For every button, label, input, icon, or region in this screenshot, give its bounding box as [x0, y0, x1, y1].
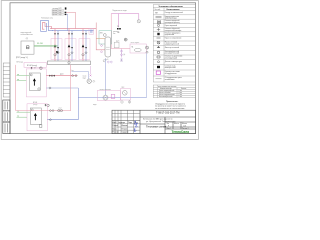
- shutoff valves: [54, 45, 87, 49]
- svg-text:датчик Т обр.: датчик Т обр.: [52, 14, 62, 16]
- pump skid box: [130, 44, 146, 53]
- unit B symbols: [45, 104, 50, 107]
- makeup header magenta: [111, 13, 139, 15]
- svg-text:насос: насос: [83, 75, 87, 77]
- unit B green inlet 1: [17, 111, 31, 113]
- svg-text:Кран со спускником: Кран со спускником: [165, 38, 182, 40]
- svg-text:(2): (2): [26, 38, 29, 40]
- valve on A return: [49, 87, 51, 89]
- vessel bottom drop: [104, 58, 106, 95]
- svg-text:оборудования: оборудования: [165, 73, 177, 75]
- diamonds on B supply: [49, 110, 54, 112]
- unit B enclosure: [27, 104, 47, 131]
- return riser up: [77, 88, 79, 120]
- svg-text:1:25: 1:25: [183, 125, 186, 127]
- unit A green inlet 1: [17, 75, 30, 77]
- svg-text:Условные обозначения: Условные обозначения: [159, 5, 184, 8]
- svg-text:Масшт: Масшт: [182, 123, 187, 125]
- svg-text:Т-08/17-033-2017-ТМ: Т-08/17-033-2017-ТМ: [156, 112, 179, 115]
- svg-text:Кран шаровый: Кран шаровый: [165, 24, 177, 27]
- heat exchanger HE1: [21, 41, 34, 54]
- vessel inner mark: [106, 47, 110, 49]
- skid right diamond: [146, 51, 148, 53]
- unit B green inlet 2: [17, 116, 28, 118]
- svg-text:подп.: подп.: [83, 77, 87, 79]
- unit B bottom box: [40, 125, 42, 128]
- svg-text:Бак мембранный: Бак мембранный: [159, 95, 172, 98]
- pump unit P2: [121, 89, 131, 101]
- return riser left: [15, 65, 17, 111]
- branch to drain: [121, 49, 123, 58]
- svg-text:мембранный: мембранный: [165, 66, 176, 69]
- boiler branch groups: [51, 29, 90, 61]
- svg-text:2 шт: 2 шт: [59, 108, 62, 110]
- svg-text:Л: Л: [115, 122, 116, 124]
- unit A burner arrow: [33, 79, 35, 85]
- branch pipes: [55, 29, 86, 61]
- supply riser from manifold: [70, 65, 72, 111]
- title block: [112, 110, 196, 133]
- return bus T2: [52, 30, 94, 32]
- legend table: [153, 5, 195, 82]
- diamonds on A supply: [71, 75, 73, 77]
- primechanie note: [155, 101, 186, 110]
- drain valves: [120, 50, 122, 52]
- unit A green inlet 2: [17, 80, 27, 82]
- legend symbols: [155, 12, 162, 78]
- unit A symbols above: [31, 67, 42, 70]
- svg-text:датчик Т нар.: датчик Т нар.: [52, 10, 62, 12]
- svg-text:ул. Центральной. Тепломеханика: ул. Центральной. Тепломеханика: [146, 120, 176, 123]
- expansion vessel: [105, 37, 111, 57]
- outlet valves purple: [107, 61, 109, 63]
- vessel outlet circle: [103, 60, 105, 62]
- svg-text:пружинный: пружинный: [165, 33, 174, 36]
- svg-text:3: 3: [82, 58, 83, 60]
- svg-text:газ: газ: [17, 74, 19, 76]
- mixing line blue: [72, 72, 89, 80]
- svg-text:Ду25: Ду25: [116, 41, 119, 43]
- logo green: [172, 130, 190, 134]
- group 3 enclosure: [79, 39, 90, 60]
- svg-text:Дс: Дс: [124, 54, 126, 56]
- collector manifold: [48, 61, 91, 65]
- svg-text:Масса: Масса: [174, 123, 179, 125]
- main supply drop: [96, 23, 105, 50]
- page edge: [1, 1, 198, 140]
- makeup drop 2: [118, 14, 120, 28]
- group 2 enclosure: [65, 39, 76, 60]
- svg-text:Сидоров: Сидоров: [122, 132, 129, 134]
- svg-text:№докум: №докум: [118, 121, 125, 124]
- makeup drop 1: [111, 14, 130, 49]
- svg-text:[ГВТ (вход 1-]: [ГВТ (вход 1-]: [16, 57, 28, 59]
- device circle: [137, 20, 140, 23]
- svg-text:1 шт: 1 шт: [179, 96, 183, 98]
- svg-text:Тепловая сеть: Тепловая сеть: [41, 17, 53, 19]
- svg-text:расширительный: расширительный: [165, 52, 179, 55]
- unit A return out: [46, 87, 78, 89]
- makeup drop 3: [138, 14, 140, 20]
- makeup pump: [87, 79, 91, 83]
- svg-text:Н.контр: Н.контр: [113, 132, 119, 134]
- svg-text:1: 1: [54, 58, 55, 60]
- bottom return bus: [78, 97, 146, 99]
- unit A bottom circle: [38, 88, 40, 90]
- unit B top circle: [31, 109, 33, 111]
- svg-text:Ду50: Ду50: [60, 74, 64, 76]
- right small table: [153, 85, 195, 98]
- inlet valves: [100, 44, 102, 46]
- svg-text:Иванов: Иванов: [122, 125, 128, 127]
- svg-text:подп.: подп.: [93, 104, 97, 106]
- svg-text:95-110: 95-110: [37, 43, 43, 45]
- sensor symbol: [65, 7, 67, 9]
- svg-text:Фильтр сетчатый: Фильтр сетчатый: [165, 46, 179, 49]
- svg-text:Подпиточная вода: Подпиточная вода: [112, 10, 127, 12]
- sensor squares: [65, 12, 67, 13]
- unit A boiler: [29, 73, 40, 90]
- sensor tap wire blue: [66, 14, 67, 30]
- supply bus T1: [50, 28, 96, 30]
- svg-text:Лит: Лит: [167, 123, 170, 125]
- svg-text:насосы сетевые: насосы сетевые: [100, 89, 111, 91]
- svg-text:2 шт: 2 шт: [71, 70, 74, 72]
- svg-text:(вход): (вход): [33, 104, 38, 106]
- gauge circle right: [124, 38, 127, 41]
- svg-text:автоматики: автоматики: [165, 79, 175, 81]
- device box right of vessel: [114, 42, 119, 48]
- magenta cross: [90, 75, 92, 77]
- unit B return out: [47, 119, 78, 121]
- valve pair on A supply: [49, 75, 51, 77]
- unit B supply in: [16, 110, 71, 112]
- svg-text:Пров.: Пров.: [113, 128, 118, 130]
- left margin ladder: [3, 63, 10, 97]
- svg-text:поворотный межфл.: поворотный межфл.: [165, 29, 182, 32]
- unit B boiler: [30, 108, 41, 124]
- skid right circle: [146, 46, 149, 49]
- green supply line 2: [34, 46, 58, 48]
- expansion loop supply pipe T1: [42, 23, 51, 30]
- pump unit P1: [97, 91, 120, 101]
- svg-text:Разраб: Разраб: [113, 125, 119, 127]
- small gauge: [93, 80, 95, 82]
- vessel top circle: [103, 34, 106, 37]
- svg-text:ПЕ: ПЕ: [117, 26, 119, 28]
- svg-text:регулирующий: регулирующий: [165, 56, 177, 59]
- makeup water line orange: [96, 38, 105, 40]
- svg-text:Р: Р: [168, 125, 169, 127]
- drawing frame: [10, 3, 196, 134]
- manifold valve: [68, 61, 71, 64]
- pump oval: [134, 48, 141, 51]
- VL box: [24, 63, 47, 68]
- green supply line: [34, 44, 58, 46]
- svg-text:Тепловая схема: Тепловая схема: [146, 125, 167, 129]
- pump in group1: [56, 51, 58, 53]
- svg-text:проходной фланц.: проходной фланц.: [165, 21, 181, 24]
- flow arrows: [54, 33, 87, 35]
- svg-text:2: 2: [68, 58, 69, 60]
- unit A enclosure: [26, 69, 46, 97]
- sensor tap wire red: [66, 12, 75, 28]
- left margin stamp boxes: [3, 100, 10, 134]
- svg-text:газ: газ: [17, 79, 19, 81]
- svg-text:циркуляционный: циркуляционный: [165, 42, 179, 45]
- svg-text:Контур отопительный: Контур отопительный: [165, 11, 183, 14]
- expansion loop return pipe T2: [41, 20, 53, 31]
- svg-text:ВЛ-М (вход): ВЛ-М (вход): [27, 65, 37, 67]
- svg-text:Петров: Петров: [122, 128, 128, 130]
- signature squiggles: [134, 121, 138, 131]
- svg-text:датчик Т под.: датчик Т под.: [52, 12, 62, 14]
- svg-text:на аналогичное по согласованию: на аналогичное по согласованию: [155, 108, 185, 110]
- softener skid teal box: [99, 31, 112, 44]
- HE1 inner mark: [26, 46, 29, 49]
- svg-text:Наименование: Наименование: [167, 9, 180, 11]
- svg-text:Датчик температуры: Датчик температуры: [165, 61, 183, 63]
- unit B burner arrow: [34, 114, 36, 120]
- group 1 enclosure: [51, 39, 62, 60]
- unit A top circle: [30, 74, 32, 76]
- svg-text:ТеплоСила: ТеплоСила: [172, 130, 190, 134]
- ball valves: [54, 52, 88, 57]
- instrument labels top: [52, 8, 64, 16]
- return branch down: [146, 53, 148, 97]
- small pump box on bus: [89, 29, 94, 34]
- svg-text:газ: газ: [17, 115, 19, 117]
- blowdown stub: [90, 66, 92, 74]
- svg-text:бак: бак: [113, 33, 116, 35]
- valve on B return: [49, 119, 51, 121]
- svg-text:теплообменник: теплообменник: [21, 34, 33, 36]
- svg-text:Подп: Подп: [128, 122, 132, 124]
- svg-text:Усл.об.: Усл.об.: [155, 9, 161, 11]
- svg-text:КТ: КТ: [34, 68, 36, 70]
- unit A supply out: [46, 75, 77, 77]
- svg-text:ВЛ вход: ВЛ вход: [17, 62, 23, 64]
